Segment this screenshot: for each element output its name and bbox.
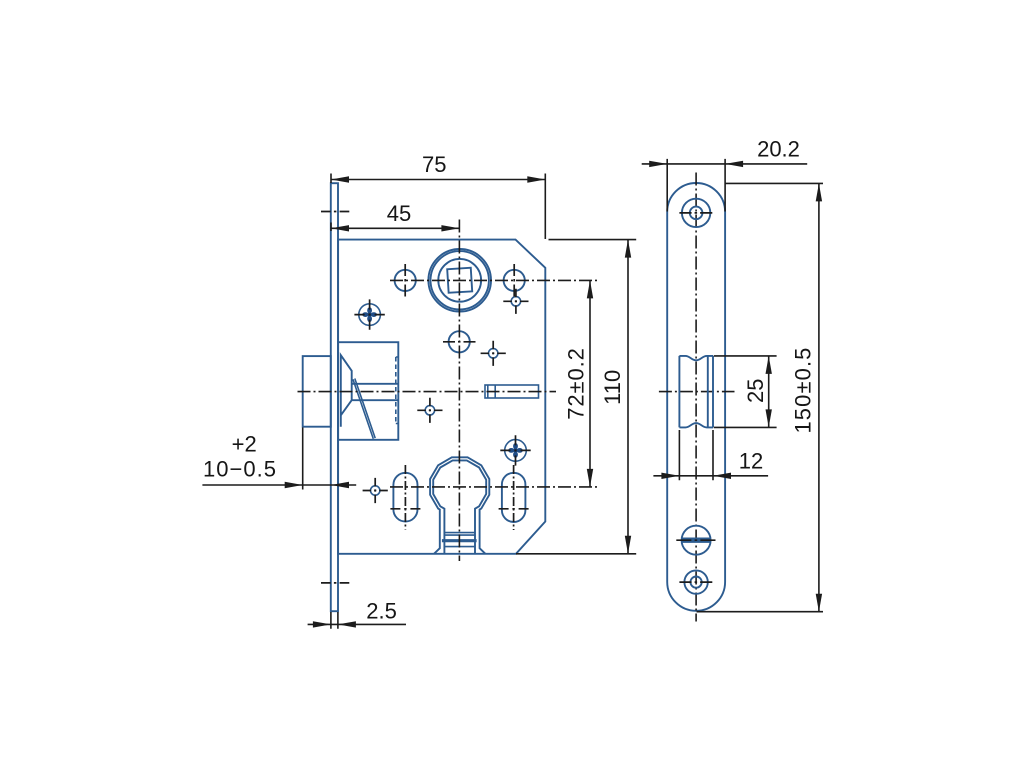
latch window bbox=[679, 356, 713, 428]
oval hole right bbox=[502, 473, 526, 522]
dimension 2.5 bbox=[308, 598, 406, 628]
svg-text:110: 110 bbox=[600, 370, 625, 405]
centerline ticks screw posts bbox=[405, 264, 514, 342]
centerline tick plate top bbox=[321, 211, 349, 213]
spindle square hole bbox=[447, 268, 472, 293]
centerline follower axis bbox=[390, 279, 598, 281]
centerline keyhole axis bbox=[390, 486, 598, 488]
svg-text:2.5: 2.5 bbox=[366, 598, 397, 623]
dimension 72 tol bbox=[564, 280, 594, 487]
screw hole slotted bbox=[676, 526, 716, 555]
rivet rosette F bbox=[500, 435, 530, 465]
crosshair pivot D bbox=[363, 478, 388, 503]
screw post hole center bbox=[449, 331, 470, 352]
rivet rosette E bbox=[354, 299, 384, 329]
latch bolt head bbox=[303, 356, 331, 427]
screw hole top bbox=[679, 199, 712, 227]
svg-text:72±0.2: 72±0.2 bbox=[564, 347, 589, 420]
screw post hole right bbox=[504, 270, 525, 291]
dimension 12 bbox=[653, 430, 768, 480]
crosshair pivot B bbox=[481, 341, 506, 366]
follower hub U bbox=[428, 249, 491, 312]
svg-text:45: 45 bbox=[387, 201, 411, 226]
svg-text:75: 75 bbox=[422, 152, 446, 177]
svg-text:150±0.5: 150±0.5 bbox=[791, 346, 816, 433]
svg-text:12: 12 bbox=[739, 448, 763, 473]
pin stop bbox=[485, 385, 539, 398]
screw hole bottom bbox=[679, 570, 712, 593]
dimension 75 bbox=[331, 152, 545, 239]
spindle guide lines bbox=[352, 384, 398, 400]
centerline tick plate bottom bbox=[321, 582, 349, 584]
dimension 110 bbox=[516, 240, 636, 554]
dimension 45 bbox=[331, 201, 459, 232]
cylinder keyhole outer profile bbox=[430, 457, 489, 554]
centerline plate latch axis bbox=[659, 391, 735, 393]
latch bolt housing bbox=[338, 342, 398, 440]
hidden edge dashed bbox=[395, 357, 397, 424]
dimension 20.2 bbox=[642, 136, 808, 211]
keyhole stem bars bbox=[444, 533, 475, 547]
lock case outline bbox=[338, 240, 545, 554]
dimension 150 tol bbox=[697, 183, 823, 611]
strike plate front view bbox=[667, 183, 725, 611]
latch spring link bbox=[353, 379, 375, 439]
svg-text:25: 25 bbox=[743, 378, 768, 402]
dimension 10 tol bbox=[202, 428, 356, 490]
faceplate side view bbox=[331, 183, 338, 611]
oval hole left bbox=[393, 473, 417, 522]
crosshair pivot A bbox=[503, 289, 528, 314]
svg-text:10−0.5: 10−0.5 bbox=[203, 457, 277, 482]
svg-text:+2: +2 bbox=[232, 432, 257, 457]
crosshair pivot C bbox=[417, 398, 442, 423]
centerline latch axis bbox=[298, 391, 557, 393]
latch bolt bevel profile bbox=[341, 355, 352, 427]
centerline plate vertical bbox=[695, 173, 697, 622]
cylinder keyhole inner profile bbox=[433, 460, 486, 553]
dimension 25 bbox=[714, 356, 777, 428]
centerline vertical main bbox=[458, 220, 460, 562]
svg-text:20.2: 20.2 bbox=[757, 136, 800, 161]
screw post hole left bbox=[395, 270, 416, 291]
